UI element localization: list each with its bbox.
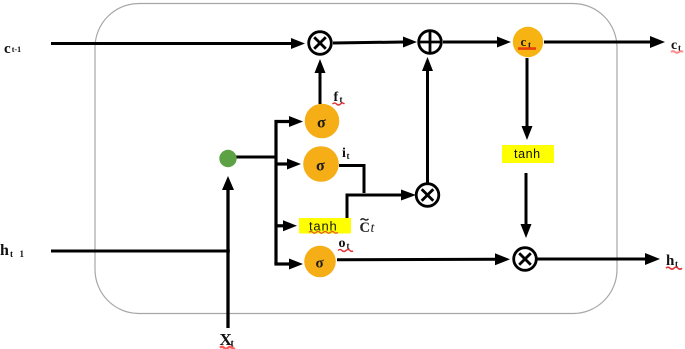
sigma gate f (forget)	[305, 104, 340, 139]
svg-text:t-1: t-1	[12, 45, 21, 54]
svg-text:i: i	[342, 146, 346, 161]
label f_t	[333, 90, 345, 105]
tanh box (candidate activation)	[299, 218, 351, 234]
wire h_(t-1) input	[51, 250, 230, 253]
sigma gate o (output)	[304, 246, 336, 278]
svg-text:σ: σ	[316, 158, 325, 175]
wire o gate to X3	[337, 253, 510, 265]
wire X_t input (vertical)	[222, 176, 234, 328]
junction dot (green)	[219, 150, 236, 167]
wire add node to c_t state	[443, 37, 511, 48]
svg-text:t: t	[347, 151, 350, 161]
multiply node X2 (candidate x input)	[416, 184, 439, 207]
tanh box (output activation)	[502, 145, 554, 163]
wire X3 to h_t output	[537, 253, 660, 265]
state node c_t (orange circle)	[513, 27, 543, 57]
label X_t	[220, 330, 236, 349]
wire X2 up to add node	[422, 57, 433, 183]
svg-text:1: 1	[20, 249, 25, 259]
wire f gate up to X1	[315, 59, 326, 104]
multiply node X1 (forget gate product)	[309, 32, 332, 55]
svg-text:t: t	[10, 249, 13, 259]
input trunk wire with four branches	[274, 116, 303, 270]
wire tanh mid up and to X2	[347, 190, 416, 219]
svg-text:c: c	[4, 41, 11, 57]
sigma gate i (input)	[303, 146, 339, 182]
wire c_t output	[544, 36, 665, 48]
svg-text:σ: σ	[317, 115, 326, 132]
label i_t	[342, 146, 350, 161]
svg-text:h: h	[0, 242, 9, 259]
multiply node X3 (output product)	[514, 248, 537, 271]
LSTM cell boundary	[95, 4, 617, 314]
wire tanh down to multiply X3	[521, 173, 532, 238]
svg-text:C: C	[360, 220, 370, 236]
wire c_t down to tanh	[522, 58, 533, 140]
label C~t (candidate)	[360, 219, 376, 236]
wire c_(t-1) input	[51, 38, 305, 49]
svg-text:c: c	[521, 34, 527, 49]
label h_t output	[666, 253, 682, 269]
label h_(t-1)	[0, 242, 25, 259]
label c_(t-1)	[4, 41, 21, 57]
svg-text:tanh: tanh	[514, 147, 541, 161]
label o_t	[338, 236, 353, 252]
wire X1 to add node	[333, 37, 417, 48]
wire green junction to trunk	[234, 156, 276, 159]
label c_t output	[671, 38, 683, 53]
svg-text:σ: σ	[316, 256, 325, 272]
svg-text:t: t	[371, 221, 376, 236]
add node (plus)	[419, 31, 442, 54]
wire i gate to X2 (right then down)	[339, 166, 364, 194]
